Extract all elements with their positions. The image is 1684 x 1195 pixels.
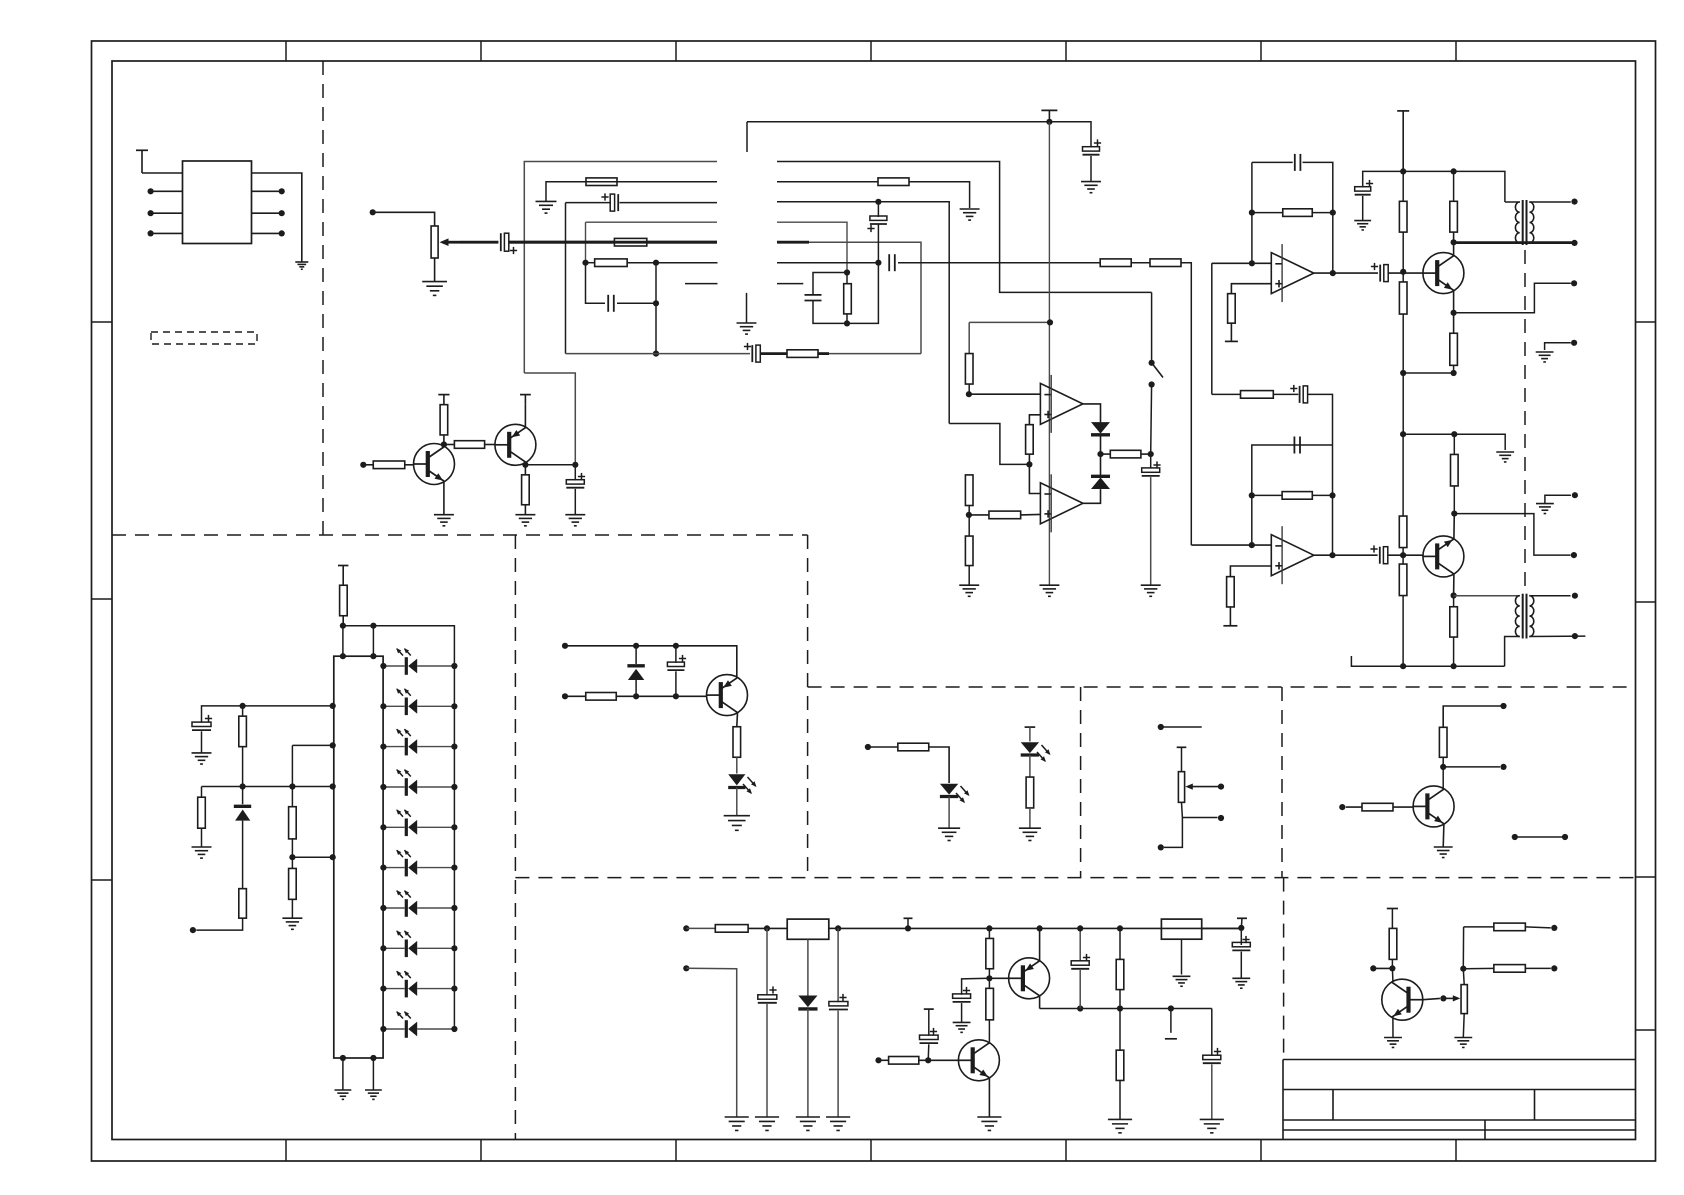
- divider middle resistor R15: [965, 475, 973, 506]
- transformer T2 top wire: [1454, 595, 1520, 597]
- supply T-bar right: [1397, 110, 1409, 112]
- supply T-bar Q9: [1387, 908, 1398, 910]
- transistor Q7 pnp: [1009, 958, 1050, 999]
- junction dot L3 right: [875, 199, 881, 205]
- PSU input terminal -: [683, 965, 689, 971]
- C17 to ground: [201, 731, 203, 753]
- U1 pin 4 wire: [151, 232, 183, 234]
- wire R16 ends: [969, 514, 989, 516]
- power rail top wire: [747, 121, 1049, 123]
- resistor R25: [1241, 391, 1274, 399]
- resistor R49: [889, 1057, 919, 1065]
- wire C3 to junction: [617, 302, 656, 304]
- U3B output wire: [1314, 554, 1378, 556]
- wire node to Q7 base: [989, 977, 1008, 979]
- capacitor C1 polarized: [500, 233, 502, 251]
- transformer T1 primary bold wire: [1454, 241, 1575, 244]
- ground C10: [1141, 584, 1161, 586]
- terminal Q9: [1370, 965, 1376, 971]
- resistor R44: [715, 925, 748, 933]
- wire L4 corner down: [585, 222, 587, 263]
- wire between series resistors: [1131, 262, 1150, 264]
- wire cap corner row: [202, 706, 243, 723]
- terminal LED drive: [865, 744, 871, 750]
- junction dot L7: [653, 300, 659, 306]
- wire D1 to node: [1100, 435, 1102, 455]
- U1 pin 3 wire: [151, 212, 183, 214]
- wire supply to cap C13: [1363, 171, 1404, 187]
- opamp U2B: [1040, 483, 1083, 524]
- PSU gnd wire: [686, 968, 736, 1117]
- capacitor C7 vertical: [805, 294, 822, 296]
- resistor R36 middle: [289, 807, 297, 839]
- capacitor C17 polarized LED ref: [192, 722, 211, 726]
- ground Q9: [1384, 1037, 1402, 1039]
- capacitor C21 polarized bias: [962, 978, 990, 994]
- ground D15: [724, 815, 750, 817]
- capacitor C25 polarized out: [1240, 928, 1242, 945]
- wire switch to meter node: [1150, 385, 1153, 455]
- wire T-bar to pot: [1181, 747, 1183, 771]
- resistor R42: [1439, 727, 1447, 757]
- ground Q1: [434, 514, 454, 516]
- U6 output T-bar: [1237, 917, 1247, 919]
- resistor R48: [1116, 1050, 1124, 1080]
- R27 terminator stub: [1229, 607, 1231, 626]
- Q1 collector wire and junction: [443, 435, 445, 447]
- U3B inverting wire: [1191, 544, 1271, 546]
- transistor Q8: [958, 1040, 999, 1081]
- ground lower-right top: [1496, 451, 1514, 453]
- wire U6 out: [1202, 927, 1242, 929]
- wire C7 bottom: [813, 300, 847, 323]
- wire net L6 right: [777, 262, 878, 264]
- opamp U3A: [1271, 253, 1314, 294]
- wire rail to transformer corner: [1403, 171, 1505, 202]
- terminal dot T2 top: [1572, 593, 1578, 599]
- dashed placeholder box: [151, 332, 257, 344]
- wire net L1 right: [777, 162, 1152, 293]
- bold signal wire C1 to network: [509, 241, 717, 244]
- C11 to right corner: [1303, 162, 1333, 212]
- wire R11 to Q2 base: [485, 444, 495, 446]
- floating link wire: [1515, 836, 1565, 838]
- ground C19: [755, 1116, 779, 1118]
- resistor R28 Q5 emitter upper: [1451, 454, 1459, 486]
- PSU rail: [838, 927, 1241, 929]
- emitter tap to terminal: [1454, 283, 1571, 313]
- divider top resistor R13: [968, 322, 970, 353]
- ground C25: [1232, 977, 1250, 979]
- U3A inverting node: [1249, 260, 1255, 266]
- resistor R8 vertical RC: [846, 273, 848, 284]
- wire R5 to ground corner: [909, 182, 970, 208]
- Q1 collector supply stub: [443, 395, 445, 405]
- resistor R10 Q1 collector load: [440, 405, 448, 435]
- RV2 wiper arrow: [1189, 786, 1221, 788]
- bold signal wire with coupling cap C1: [460, 241, 498, 244]
- section divider dashed H2: [808, 686, 1636, 688]
- wire R30 ends: [1402, 555, 1404, 564]
- wire zener to R35: [242, 821, 244, 889]
- resistor R33 vertical: [239, 716, 247, 747]
- wire net L2 right: [777, 181, 878, 183]
- terminal trim B: [1218, 815, 1224, 821]
- wire R40 to LED D16: [929, 747, 949, 783]
- Q9 base wire to wiper: [1423, 998, 1440, 999]
- diode D2: [1091, 478, 1110, 490]
- Q6 emitter to ground: [1442, 824, 1445, 847]
- bold wire C4 to R4: [760, 352, 787, 355]
- Q6 collector wire: [1442, 788, 1445, 789]
- section divider dashed V2: [514, 535, 516, 1140]
- Q6 base resistor R43: [1346, 806, 1362, 808]
- junction dot cap node: [572, 462, 578, 468]
- terminal dot out2: [1571, 552, 1577, 558]
- junction dot feedback node: [1026, 461, 1032, 467]
- power rail corner stub: [746, 122, 748, 152]
- resistor R21 Q4 base upper: [1399, 201, 1407, 232]
- resistor R32 LED supply: [342, 566, 344, 586]
- capacitor C13 polarized: [1355, 187, 1371, 191]
- RC pair top dot: [844, 269, 850, 275]
- bottom rail lower amp: [1351, 656, 1504, 666]
- ground U6: [1173, 975, 1191, 977]
- U6 center pin to ground: [1181, 939, 1183, 974]
- opamp power vertical rail: [1048, 122, 1050, 585]
- Q2 collector junction: [524, 462, 526, 474]
- wire to R40: [868, 746, 898, 748]
- wire R14 down to node: [1028, 454, 1030, 464]
- wire RC top: [813, 273, 847, 296]
- terminal dot T2 bottom: [1572, 633, 1578, 639]
- LED D11 row 9: [383, 988, 404, 990]
- capacitor C3 on L7: [607, 295, 609, 312]
- ground R48: [1108, 1118, 1132, 1120]
- right edge ticks: [1636, 321, 1656, 323]
- capacitor C2 polarized on L3: [566, 202, 611, 204]
- Q8 emitter to ground: [988, 1078, 990, 1117]
- Q1 emitter to ground: [443, 482, 445, 515]
- feedback right vertical lower: [1332, 445, 1334, 555]
- LED D3 row 1: [383, 665, 404, 667]
- terminal drive mid: [1500, 764, 1506, 770]
- LED right rail: [453, 666, 455, 1029]
- ground terminal lower-right: [1545, 495, 1571, 503]
- wire rail to decoupling cap C9: [1049, 122, 1091, 148]
- collector bus: [1040, 1008, 1212, 1010]
- terminal R52: [1551, 965, 1557, 971]
- resistor R35: [239, 889, 247, 919]
- terminator stub mid: [1170, 1009, 1172, 1033]
- resistor R11 interstage: [454, 441, 484, 449]
- capacitor C6 on L6 right: [888, 254, 890, 271]
- capacitor C11 feedback: [1294, 154, 1296, 171]
- LED D8 row 6: [383, 867, 404, 869]
- wire net L2 left with ground stub: [546, 182, 717, 202]
- capacitor C12 polarized output: [1379, 265, 1381, 282]
- LED D4 row 2: [383, 705, 404, 707]
- U1 pin 5 wire to ground: [252, 173, 302, 262]
- ground on L2 left: [536, 200, 557, 202]
- wire to R44: [686, 927, 715, 929]
- resistor R39 Q3 collector: [733, 727, 741, 758]
- transformer T1: [1522, 200, 1524, 245]
- node row wire to LED rail: [343, 626, 455, 666]
- wire upper to R25: [1212, 393, 1241, 395]
- opamp U3B: [1271, 535, 1314, 576]
- junction dot bottom rail x656: [653, 351, 659, 357]
- resistor R47: [1116, 959, 1124, 989]
- terminal trim wiper: [1218, 784, 1224, 790]
- resistor R24 Q4 emitter: [1450, 333, 1458, 365]
- wire R33 ends: [242, 706, 244, 716]
- wire R21 bottom to base node: [1402, 232, 1404, 272]
- resistor R38: [586, 693, 617, 701]
- resistor R34 left leg: [201, 787, 203, 798]
- ground Q8: [977, 1116, 1001, 1118]
- wire middle junction to U4: [292, 856, 333, 858]
- ground opamp rail: [1039, 584, 1059, 586]
- ground R34: [192, 846, 212, 848]
- U3A output wire: [1314, 272, 1378, 274]
- wire input to pot top: [373, 212, 435, 226]
- ground Q6: [1434, 846, 1453, 848]
- ground U4 pin A: [335, 1089, 352, 1091]
- wire node A to U5: [767, 927, 787, 929]
- Q7 collector down: [1039, 996, 1041, 1009]
- U1 pin 7 wire: [252, 212, 282, 214]
- bottom rail left segment: [566, 353, 751, 355]
- feedback resistor R19: [1249, 210, 1255, 216]
- wire to LED D17: [1029, 727, 1031, 741]
- potentiometer RV2: [1178, 772, 1184, 803]
- ground R37: [282, 917, 302, 919]
- capacitor C10 polarized vertical meter: [1150, 454, 1152, 469]
- wire R7 to corner down: [1181, 263, 1191, 545]
- wiper node dot: [1440, 995, 1446, 1001]
- wire net L3 left: [620, 202, 718, 204]
- input terminal Q1: [360, 462, 366, 468]
- U3A feedback top wire: [1252, 161, 1293, 163]
- transistor Q9 mirrored: [1382, 979, 1423, 1020]
- trim T-bar supply: [1177, 746, 1187, 748]
- wire R29 ends: [1402, 434, 1404, 516]
- wire corner upper: [1462, 927, 1464, 969]
- U4 top pins: [342, 626, 344, 657]
- feedback node wire from L3 vertical: [949, 424, 1029, 465]
- net stub left of gap: [685, 283, 718, 285]
- Q5 collector wire down: [1453, 574, 1455, 596]
- ground C9: [1081, 181, 1101, 183]
- middle junction: [291, 839, 293, 869]
- wire R42 to junction: [1442, 757, 1444, 788]
- feedback right vertical: [1332, 213, 1334, 274]
- resistor R18 meter: [1101, 453, 1111, 455]
- wire RV1 bottom to ground: [434, 258, 436, 282]
- junction dot meter node: [1148, 451, 1154, 457]
- wire bus corner to C23: [1211, 1009, 1213, 1056]
- capacitor C22 polarized: [1079, 928, 1081, 961]
- wire rail tap to divider: [969, 321, 1049, 323]
- ground C23: [1200, 1118, 1224, 1120]
- resistor R51 upper: [1464, 926, 1494, 928]
- ground C21: [953, 1021, 971, 1023]
- power rail junction dot: [1046, 119, 1052, 125]
- resistor R7 series: [1150, 259, 1181, 267]
- wire D17 to R41: [1029, 755, 1031, 777]
- wire R23 top to rail: [1453, 171, 1455, 201]
- terminal trim A with stub: [1158, 724, 1164, 730]
- ground R41: [1019, 827, 1041, 829]
- transformer T2: [1522, 594, 1524, 639]
- resistor R20 noninverting: [1228, 294, 1236, 324]
- wire net L1 left: [524, 162, 717, 374]
- ground symbol upper-right: [1536, 351, 1554, 353]
- resistor R45: [986, 938, 994, 968]
- ground C13: [1354, 220, 1371, 222]
- T1 primary top stub: [1505, 201, 1520, 203]
- capacitor C15 feedback: [1293, 437, 1295, 454]
- wire D16 to ground: [948, 797, 950, 829]
- wire R44 to node A: [748, 927, 767, 929]
- resistor R12 Q2 collector: [522, 475, 530, 505]
- Q4 emitter wire: [1453, 291, 1455, 334]
- Q9 emitter to ground: [1392, 1018, 1394, 1038]
- U2A noninverting wire: [1029, 415, 1040, 425]
- wire C8 to ground: [574, 489, 576, 515]
- terminal dot out1: [1571, 280, 1577, 286]
- middle divider top wire: [292, 744, 333, 746]
- terminal R51: [1551, 925, 1557, 931]
- wire base node to R22 and down: [1402, 272, 1404, 282]
- wire R9 to Q1 base: [405, 464, 414, 466]
- wire C14 corner down: [1307, 394, 1332, 445]
- top edge ticks: [285, 41, 287, 61]
- U1 pin 1 power stub: [136, 149, 148, 151]
- wire R31 ends: [1453, 596, 1455, 607]
- rail junction R45: [986, 925, 992, 931]
- wire R32 to node row: [342, 616, 344, 626]
- resistor R23 Q4 collector: [1450, 201, 1458, 232]
- terminal dot LED input: [190, 927, 196, 933]
- wire inverting input: [1212, 262, 1272, 264]
- LED D16: [940, 784, 958, 795]
- terminal dot T1 top: [1571, 199, 1577, 205]
- RC pair bottom dot: [844, 320, 850, 326]
- terminal dot T1 bottom: [1571, 240, 1577, 246]
- wire L6-L7 vertical left: [586, 263, 606, 304]
- terminal mute B: [562, 693, 568, 699]
- wire net L3 right: [777, 202, 949, 424]
- capacitor C23 polarized: [1203, 1055, 1221, 1059]
- wire D2 to U2B output: [1083, 489, 1101, 503]
- resistor R29 Q5 base upper: [1399, 516, 1407, 548]
- wire to base resistor R9: [363, 464, 373, 466]
- mute lower wire to R38: [565, 695, 586, 697]
- T2 secondary top wire: [1529, 595, 1570, 597]
- LED D7 row 5: [383, 826, 404, 828]
- wire R49 to base: [919, 1059, 959, 1061]
- diode D1: [1091, 422, 1110, 434]
- LED D17: [1021, 742, 1039, 753]
- LED D6 row 4: [383, 786, 404, 788]
- section divider dashed V5: [1281, 687, 1283, 878]
- potentiometer RV3: [1461, 985, 1467, 1014]
- U3A noninverting wire: [1231, 284, 1271, 294]
- ground for U1: [295, 261, 308, 263]
- RV2 bottom to terminal C: [1164, 818, 1182, 848]
- capacitor C14 polarized: [1299, 386, 1301, 403]
- resistor R1 on L2: [586, 178, 617, 186]
- Q2 emitter supply wire: [524, 405, 526, 428]
- RV3 bottom to ground: [1462, 1014, 1465, 1038]
- Q4 collector wire: [1453, 232, 1455, 256]
- Q2 collector resistor to ground: [524, 505, 526, 515]
- resistor R22 Q4 base lower: [1399, 282, 1407, 314]
- resistor R37 middle lower: [289, 868, 297, 899]
- capacitor C5 polarized vertical: [877, 202, 879, 217]
- Q8 base node: [925, 1057, 931, 1063]
- supply rail dot: [1400, 168, 1406, 174]
- resistor R6 series: [1100, 259, 1131, 267]
- U1 pin 2 wire: [151, 190, 183, 192]
- wire node to U2B inverting: [1029, 464, 1040, 493]
- RV3 wiper arrow: [1443, 997, 1456, 999]
- resistor R5 on L2 right: [878, 178, 909, 186]
- net stub right of gap: [777, 283, 803, 285]
- diode D14: [635, 646, 637, 664]
- transistor Q3 pnp: [707, 675, 748, 716]
- rail T-bar: [904, 917, 913, 919]
- U2A output wire: [1083, 404, 1101, 423]
- transistor Q4: [1423, 253, 1464, 294]
- wire RC bottom to cap C5 line: [847, 263, 878, 324]
- R37 to ground: [291, 899, 293, 918]
- wire node into Q9 collector: [1391, 968, 1394, 981]
- long vertical from network to Q2 node: [524, 373, 575, 465]
- wire Q2 collector to cap node: [525, 464, 575, 466]
- capacitor C4 polarized on bottom rail: [751, 345, 753, 362]
- divider bottom resistor R17: [965, 536, 973, 566]
- vertical from inverting to lower section: [1211, 263, 1213, 394]
- ground on L2 right: [960, 208, 980, 210]
- zener D13: [242, 787, 244, 805]
- RV3 top wire: [1462, 969, 1465, 985]
- T1 secondary top wire: [1529, 201, 1571, 203]
- terminal drive top: [1500, 703, 1506, 709]
- RV2 bottom junction: [1182, 802, 1218, 817]
- wire row to U4 pin: [243, 705, 334, 707]
- wire D15 to ground: [736, 788, 738, 816]
- mute top wire: [565, 646, 737, 677]
- U3B noninverting wire: [1230, 566, 1271, 577]
- wire C9 to ground: [1090, 156, 1092, 182]
- wire R50 to node: [1391, 959, 1393, 968]
- title block: [1282, 1060, 1284, 1140]
- wire R46 ends: [988, 978, 990, 988]
- ground symbol lower-right section: [1536, 503, 1554, 505]
- diode D18 on U5 adj: [807, 939, 809, 995]
- transistor Q1: [414, 444, 455, 485]
- Q5 emitter wire up: [1453, 514, 1455, 539]
- wire R25 to C14: [1273, 393, 1298, 395]
- LED D9 row 7: [383, 907, 404, 909]
- switch lever: [1151, 292, 1153, 362]
- wire between bottom dots: [1403, 372, 1453, 374]
- ground C20: [826, 1116, 850, 1118]
- feedback cap wire: [1252, 445, 1333, 495]
